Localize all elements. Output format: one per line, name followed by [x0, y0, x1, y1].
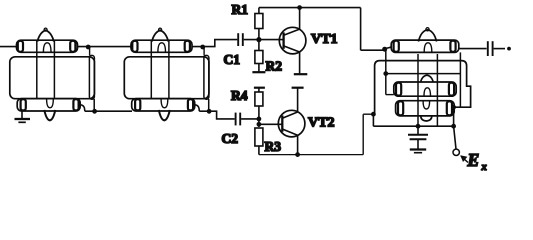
- output coupling capacitor: [459, 48, 487, 50]
- decoupling capacitor to ground: [417, 126, 419, 134]
- feed wire from rail to output transformer: [361, 8, 384, 51]
- long core verticals: [417, 54, 419, 126]
- node VT2 base junction dots: [257, 117, 262, 122]
- wire block1 to block2 (bottom rail): [85, 110, 132, 112]
- svg-text:C1: C1: [224, 52, 241, 67]
- filter block 1: [10, 28, 97, 120]
- terminal Ex: [453, 149, 459, 155]
- wire node to R2: [258, 40, 260, 51]
- capacitor C2: [235, 113, 237, 126]
- output transformer outer winding loop: [375, 61, 471, 115]
- junction dot VT2 emitter on rail: [295, 152, 300, 157]
- bottom common rail: [259, 154, 363, 156]
- svg-text:E: E: [467, 150, 480, 170]
- right side link junction dot: [451, 105, 456, 110]
- junction dot feed: [382, 47, 387, 52]
- ground below capacitor: [410, 148, 426, 150]
- svg-text:C2: C2: [222, 131, 239, 146]
- junction dot collector VT1 on rail: [297, 5, 302, 10]
- junction dot left of right block: [371, 112, 376, 117]
- resistor R4: [258, 88, 260, 92]
- wire block2 to C1 jog: [192, 40, 237, 47]
- wire C1 to VT1 base node: [244, 39, 284, 41]
- filter block 2: [124, 28, 211, 120]
- ground of filter block 1: [21, 111, 23, 118]
- winding end lead down right side: [459, 52, 461, 107]
- output transformer bottom winding: [396, 101, 455, 116]
- wire block1 to block2 (top rail): [78, 46, 132, 48]
- node VT1 base junction dot: [256, 37, 261, 42]
- rail up to right block: [363, 114, 374, 154]
- resistor R1: [258, 8, 260, 14]
- svg-text:VT1: VT1: [311, 32, 337, 47]
- output transformer middle winding: [394, 82, 456, 96]
- transistor VT2: [278, 110, 305, 137]
- output transformer top winding: [391, 40, 459, 52]
- svg-text:R2: R2: [266, 59, 283, 74]
- ground bar below VT1 emitter: [294, 73, 308, 75]
- svg-text:VT2: VT2: [308, 115, 334, 130]
- arrow to Ex: [461, 156, 468, 162]
- resistor R3: [255, 128, 263, 146]
- resistor R2: [255, 51, 263, 64]
- wire node to VT2 base: [259, 123, 282, 125]
- svg-text:R4: R4: [231, 88, 248, 103]
- capacitor C1: [237, 33, 239, 46]
- inner tap line: [385, 49, 387, 94]
- wire block2 bottom to C2 jog: [199, 111, 234, 119]
- output terminal blob: [507, 47, 511, 51]
- svg-text:R1: R1: [232, 2, 249, 17]
- svg-text:x: x: [481, 162, 487, 173]
- ground bar below R2: [252, 71, 265, 73]
- supply bar above VT2 collector: [292, 87, 304, 89]
- wire C2 to VT2 base node: [241, 118, 259, 120]
- transistor VT1: [279, 27, 306, 54]
- supply bar above R4: [254, 87, 265, 89]
- svg-text:R3: R3: [265, 139, 282, 154]
- input wire: [0, 46, 17, 48]
- bottom rail of output transformer: [373, 114, 453, 126]
- top supply rail stage 1: [259, 7, 361, 9]
